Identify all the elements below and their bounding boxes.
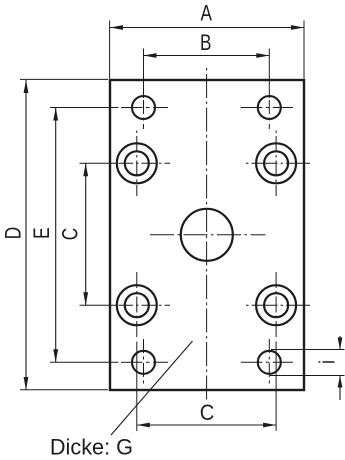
- svg-text:i: i: [316, 360, 341, 364]
- svg-text:E: E: [30, 227, 55, 238]
- hole H4 vertical centerline: [268, 339, 270, 385]
- counterbore CB4 vertical centerline: [275, 272, 277, 339]
- svg-text:Dicke: G: Dicke: G: [50, 434, 133, 459]
- dimension i arrow bottom: [338, 376, 343, 388]
- dimension D line: [25, 80, 27, 390]
- counterbore CB4 bottom-right outer: [256, 285, 296, 325]
- svg-text:C: C: [59, 228, 84, 240]
- plate outline: [110, 80, 304, 390]
- center hole horizontal centerline: [148, 234, 266, 236]
- hole H3 bottom-left: [132, 351, 155, 374]
- dimension C-left line: [85, 163, 87, 305]
- dimension A arrow left: [110, 25, 123, 30]
- dimension A line: [110, 27, 304, 29]
- svg-text:B: B: [200, 31, 211, 56]
- dimension C-bottom extension line right: [275, 342, 277, 432]
- dimension i line bottom segment: [339, 376, 341, 401]
- hole H2 horizontal centerline: [241, 107, 293, 109]
- counterbore CB3 bottom-left outer: [117, 285, 157, 325]
- dimension C-bottom extension line left: [136, 342, 138, 432]
- svg-text:C: C: [200, 401, 215, 425]
- hole H2 vertical centerline: [268, 100, 270, 129]
- counterbore CB2 top-right outer: [256, 143, 296, 183]
- counterbore CB4 horizontal centerline: [243, 304, 310, 306]
- dimension E extension line bottom: [50, 361, 119, 363]
- hole H1 top-left: [132, 96, 155, 119]
- dimension i extension line top: [271, 349, 345, 351]
- counterbore CB1 vertical centerline: [136, 131, 138, 197]
- dimension B extension line left: [143, 49, 145, 99]
- dimension C-left arrow top: [83, 163, 88, 176]
- dimension E line: [55, 108, 57, 363]
- dimension C-bottom arrow left: [137, 423, 150, 428]
- dimension A extension line right: [303, 21, 305, 79]
- dimension i arrow top: [338, 338, 343, 350]
- center hole: [181, 209, 233, 261]
- dimension E arrow top: [53, 108, 58, 121]
- dimension D arrow top: [24, 80, 29, 93]
- counterbore CB2 vertical centerline: [275, 131, 277, 197]
- hole H2 top-right: [258, 96, 281, 119]
- hole H3 vertical centerline: [143, 339, 145, 385]
- leader line Dicke: G: [111, 341, 193, 435]
- dimension B line: [144, 55, 270, 57]
- dimension B arrow left: [144, 53, 157, 58]
- counterbore CB3 inner: [125, 293, 149, 317]
- counterbore CB1 inner: [125, 151, 149, 175]
- dimension C-bottom line: [137, 424, 276, 426]
- center vertical centerline: [206, 67, 208, 401]
- dimension C-left arrow bottom: [83, 292, 88, 305]
- dimension A arrow right: [291, 25, 304, 30]
- counterbore CB1 horizontal centerline: [119, 162, 171, 164]
- counterbore CB1 top-left outer: [117, 143, 157, 183]
- hole H4 bottom-right: [258, 351, 281, 374]
- counterbore CB3 horizontal centerline: [119, 304, 171, 306]
- dimension A extension line left: [109, 21, 111, 79]
- dimension i extension line bottom: [270, 375, 345, 377]
- counterbore CB2 inner: [264, 151, 288, 175]
- hole H1 vertical centerline: [143, 100, 145, 129]
- dimension B arrow right: [256, 53, 269, 58]
- svg-text:D: D: [2, 227, 27, 239]
- dimension C-bottom arrow right: [263, 423, 276, 428]
- dimension C-left extension line bottom: [80, 304, 117, 306]
- dimension E arrow bottom: [53, 349, 58, 362]
- hole H1 horizontal centerline: [121, 107, 168, 109]
- hole H4 horizontal centerline: [241, 361, 293, 363]
- dimension B extension line right: [268, 49, 270, 99]
- hole H3 horizontal centerline: [121, 361, 168, 363]
- counterbore CB3 vertical centerline: [136, 272, 138, 339]
- counterbore CB4 inner: [264, 293, 288, 317]
- svg-text:A: A: [200, 2, 212, 27]
- dimension i line top segment: [339, 336, 341, 350]
- dimension D extension line top: [20, 78, 108, 80]
- dimension E extension line top: [50, 107, 119, 109]
- dimension C-left extension line top: [80, 162, 117, 164]
- dimension D arrow bottom: [24, 377, 29, 390]
- counterbore CB2 horizontal centerline: [243, 162, 310, 164]
- dimension D extension line bottom: [20, 389, 108, 391]
